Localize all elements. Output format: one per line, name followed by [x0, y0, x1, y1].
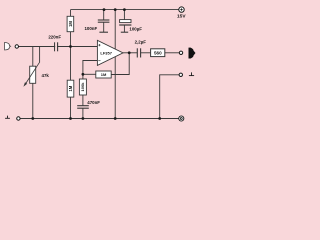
- wire 100nF stems: [103, 10, 105, 20]
- ground symbol left: [5, 116, 10, 119]
- svg-text:LF357: LF357: [100, 51, 112, 56]
- op-amp U1 LF357: [97, 40, 123, 65]
- wire pot bottom stem: [32, 83, 34, 118]
- wire op-amp output: [123, 52, 137, 54]
- ground symbol right: [189, 72, 194, 75]
- wire output ground return: [160, 75, 179, 119]
- node bottom rail at output return: [158, 117, 161, 120]
- node top rail at 100uF: [123, 8, 126, 11]
- terminal input circle: [15, 45, 18, 48]
- wire feedback right side: [111, 53, 129, 75]
- resistor 100k: [79, 79, 86, 95]
- resistor 1M feedback: [96, 71, 111, 78]
- resistor R upper 1M: [67, 16, 74, 31]
- wire input line: [19, 46, 98, 48]
- resistor R lower 1M: [67, 80, 74, 97]
- wire 100uF stems: [123, 10, 125, 20]
- power terminal 0V (double circle): [179, 116, 184, 121]
- wire cap to 560: [141, 52, 151, 54]
- connector input plug: [5, 42, 11, 50]
- wire pot top stem: [32, 47, 34, 67]
- potentiometer 47k: [23, 62, 49, 87]
- svg-text:100µF: 100µF: [129, 27, 142, 32]
- capacitor 100uF electrolytic: [119, 20, 142, 32]
- node bottom rail at 1M: [69, 117, 72, 120]
- wire top rail V+: [71, 9, 179, 11]
- node A bias/input: [69, 45, 72, 48]
- wire bias column: [70, 10, 72, 17]
- node bottom rail at op-amp pin: [114, 117, 117, 120]
- node output: [128, 51, 131, 54]
- capacitor 2.2uF: [135, 39, 147, 57]
- svg-text:220nF: 220nF: [48, 35, 61, 40]
- svg-text:15V: 15V: [177, 13, 186, 19]
- ground bar under 100nF: [99, 31, 108, 33]
- terminal bottom-left circle: [17, 117, 20, 120]
- connector output plug (filled): [189, 48, 195, 58]
- svg-text:1M: 1M: [68, 21, 73, 27]
- svg-text:100nF: 100nF: [84, 26, 97, 31]
- terminal output-gnd circle: [179, 73, 182, 76]
- resistor 560: [151, 49, 165, 57]
- node top rail at 100nF: [103, 8, 106, 11]
- terminal output circle: [179, 51, 182, 54]
- wire op-amp V- pin: [114, 57, 116, 119]
- wire 560 to output terminal: [165, 52, 180, 54]
- svg-text:100k: 100k: [80, 82, 85, 92]
- wire pot wiper link: [39, 47, 41, 63]
- wire op-amp V+ pin: [114, 10, 116, 50]
- ground bar under 100uF: [121, 31, 128, 33]
- wire bottom rail 0V: [20, 118, 179, 120]
- svg-text:560: 560: [154, 51, 162, 56]
- capacitor 220nF: [48, 35, 61, 52]
- node top rail at op-amp pin: [114, 8, 117, 11]
- capacitor 470nF: [77, 100, 100, 108]
- svg-text:470nF: 470nF: [87, 100, 100, 105]
- wire 100k to 470nF: [82, 95, 84, 106]
- wire node B to 1M: [83, 73, 96, 75]
- wire 470nF to rail: [82, 108, 84, 118]
- svg-text:47k: 47k: [42, 73, 50, 78]
- svg-text:1M: 1M: [68, 85, 73, 91]
- wire inverting input: [83, 61, 98, 80]
- node B feedback: [82, 73, 85, 76]
- node bottom rail at 470nF: [82, 117, 85, 120]
- capacitor 100nF: [84, 20, 109, 31]
- svg-text:1M: 1M: [101, 72, 107, 77]
- power terminal +15V: [177, 7, 186, 19]
- node bottom rail at pot: [31, 117, 34, 120]
- svg-text:2,2µF: 2,2µF: [135, 39, 147, 44]
